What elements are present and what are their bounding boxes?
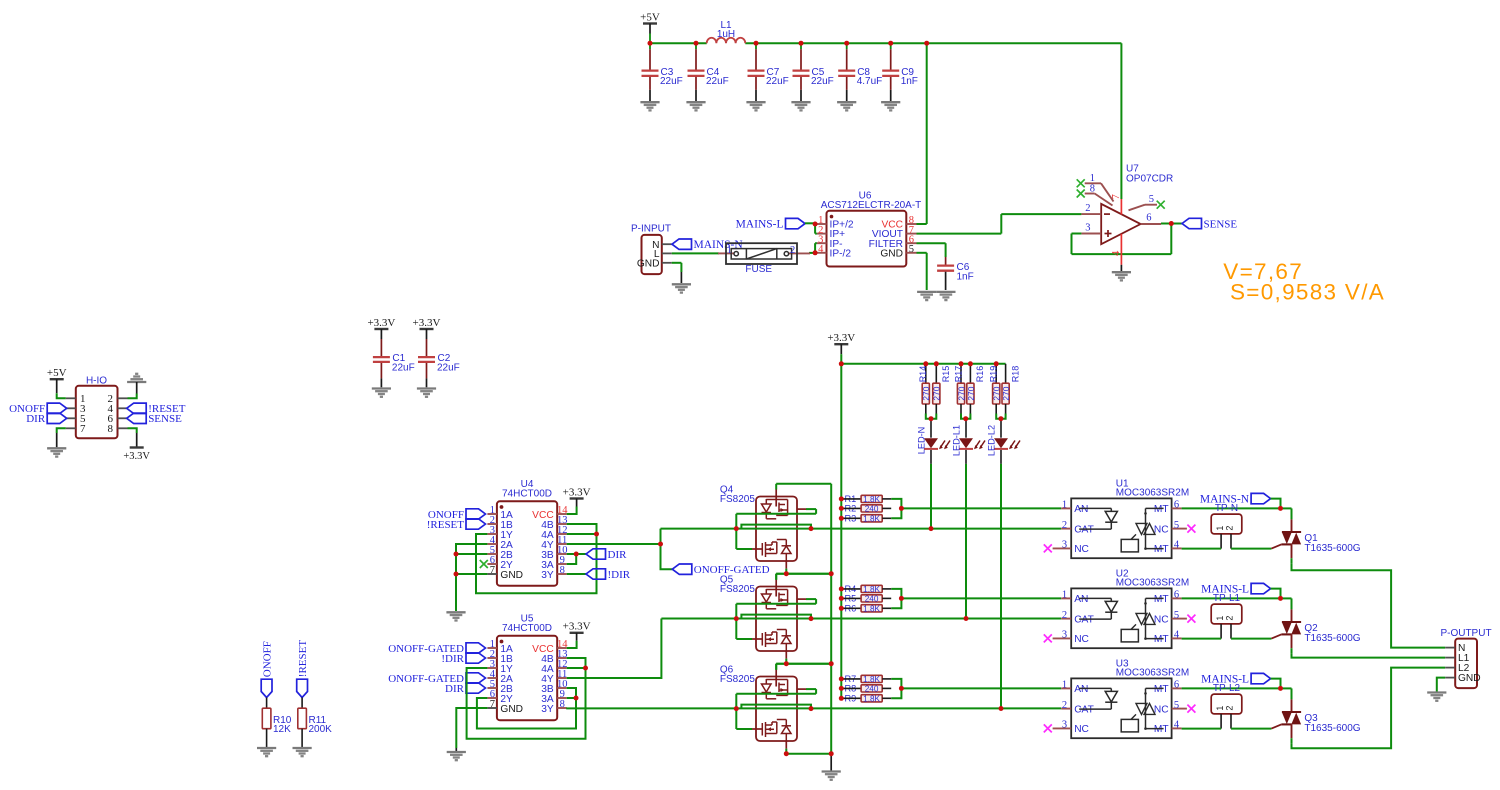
svg-text:GND: GND <box>1458 673 1481 684</box>
svg-text:1.8K: 1.8K <box>863 604 880 613</box>
svg-text:200K: 200K <box>309 724 333 735</box>
svg-text:+3.3V: +3.3V <box>413 317 441 329</box>
svg-text:!DIR: !DIR <box>608 569 631 581</box>
svg-text:IP-/2: IP-/2 <box>830 248 852 259</box>
svg-text:1.8K: 1.8K <box>863 585 880 594</box>
svg-text:7: 7 <box>80 423 86 435</box>
svg-text:CAT: CAT <box>1074 614 1094 625</box>
svg-text:LED-L1: LED-L1 <box>951 425 961 456</box>
svg-text:S=0,9583 V/A: S=0,9583 V/A <box>1230 280 1385 305</box>
svg-text:MT: MT <box>1154 544 1169 555</box>
svg-text:+3.3V: +3.3V <box>563 621 591 633</box>
svg-text:MT: MT <box>1154 684 1169 695</box>
svg-text:5: 5 <box>1174 700 1179 711</box>
svg-text:NC: NC <box>1074 634 1089 645</box>
svg-text:NC: NC <box>1154 524 1169 535</box>
svg-text:MT: MT <box>1154 634 1169 645</box>
svg-text:MT: MT <box>1154 504 1169 515</box>
svg-text:1: 1 <box>1215 526 1225 531</box>
svg-text:270: 270 <box>966 386 976 400</box>
svg-text:LED-N: LED-N <box>916 427 926 455</box>
svg-text:240: 240 <box>865 594 879 603</box>
svg-text:TP-L1: TP-L1 <box>1213 593 1241 604</box>
svg-text:DIR: DIR <box>445 683 465 695</box>
svg-text:T1635-600G: T1635-600G <box>1304 633 1360 644</box>
svg-text:NC: NC <box>1154 704 1169 715</box>
svg-text:R19: R19 <box>989 366 999 383</box>
svg-text:4: 4 <box>818 244 824 255</box>
svg-text:8: 8 <box>1090 184 1095 195</box>
svg-text:7: 7 <box>490 565 495 576</box>
svg-text:3Y: 3Y <box>541 704 554 715</box>
svg-text:MOC3063SR2M: MOC3063SR2M <box>1116 667 1189 678</box>
svg-text:GND: GND <box>500 570 523 581</box>
svg-text:MT: MT <box>1154 594 1169 605</box>
svg-text:2: 2 <box>1225 706 1235 711</box>
svg-text:FS8205: FS8205 <box>720 674 755 685</box>
svg-text:LED-L2: LED-L2 <box>986 425 996 456</box>
svg-text:+5V: +5V <box>640 11 660 23</box>
svg-text:6: 6 <box>1174 590 1179 601</box>
svg-text:MOC3063SR2M: MOC3063SR2M <box>1116 487 1189 498</box>
svg-text:2: 2 <box>1085 203 1090 214</box>
svg-text:OP07CDR: OP07CDR <box>1126 174 1173 185</box>
svg-text:240: 240 <box>865 504 879 513</box>
svg-text:+3.3V: +3.3V <box>563 486 591 498</box>
svg-text:DIR: DIR <box>608 549 628 561</box>
svg-text:R14: R14 <box>918 366 928 383</box>
svg-text:1: 1 <box>1215 706 1225 711</box>
svg-text:5: 5 <box>1174 610 1179 621</box>
svg-text:TP-N: TP-N <box>1215 503 1238 514</box>
svg-text:22uF: 22uF <box>706 76 729 87</box>
svg-text:1nF: 1nF <box>901 76 918 87</box>
svg-text:22uF: 22uF <box>437 363 460 374</box>
svg-text:R17: R17 <box>953 366 963 383</box>
svg-text:1.8K: 1.8K <box>863 675 880 684</box>
svg-text:NC: NC <box>1154 614 1169 625</box>
svg-text:T1635-600G: T1635-600G <box>1304 723 1360 734</box>
svg-text:1.8K: 1.8K <box>863 495 880 504</box>
svg-text:7: 7 <box>490 699 495 710</box>
svg-text:R16: R16 <box>975 366 985 383</box>
svg-text:R15: R15 <box>941 366 951 383</box>
svg-text:+3.3V: +3.3V <box>123 451 150 462</box>
svg-text:FS8205: FS8205 <box>720 584 755 595</box>
svg-text:2: 2 <box>1062 520 1067 531</box>
svg-text:ACS712ELCTR-20A-T: ACS712ELCTR-20A-T <box>821 200 922 211</box>
svg-text:8: 8 <box>560 565 565 576</box>
svg-text:1: 1 <box>1062 590 1067 601</box>
svg-text:270: 270 <box>921 386 931 400</box>
svg-text:4: 4 <box>1174 630 1180 641</box>
svg-text:74HCT00D: 74HCT00D <box>502 623 552 634</box>
svg-text:GND: GND <box>880 248 903 259</box>
svg-text:4: 4 <box>1111 250 1122 256</box>
svg-text:SENSE: SENSE <box>148 413 182 425</box>
svg-text:+5V: +5V <box>47 367 67 379</box>
svg-text:12K: 12K <box>273 724 291 735</box>
svg-text:2: 2 <box>1062 610 1067 621</box>
svg-text:1: 1 <box>1062 500 1067 511</box>
svg-text:!RESET: !RESET <box>427 519 465 531</box>
svg-text:1nF: 1nF <box>957 272 974 283</box>
svg-text:6: 6 <box>1174 680 1179 691</box>
svg-text:P-INPUT: P-INPUT <box>631 224 671 235</box>
svg-text:FUSE: FUSE <box>745 264 772 275</box>
svg-text:MOC3063SR2M: MOC3063SR2M <box>1116 577 1189 588</box>
svg-text:FS8205: FS8205 <box>720 494 755 505</box>
svg-text:3: 3 <box>1062 630 1067 641</box>
svg-text:AN: AN <box>1074 504 1088 515</box>
svg-text:MAINS-L: MAINS-L <box>736 218 784 230</box>
svg-text:240: 240 <box>865 684 879 693</box>
svg-text:P-OUTPUT: P-OUTPUT <box>1440 628 1491 639</box>
svg-text:3: 3 <box>1062 720 1067 731</box>
svg-text:MT: MT <box>1154 724 1169 735</box>
svg-text:GND: GND <box>500 704 523 715</box>
svg-text:T1635-600G: T1635-600G <box>1304 543 1360 554</box>
svg-text:22uF: 22uF <box>766 76 789 87</box>
svg-text:3: 3 <box>1085 223 1090 234</box>
svg-text:1: 1 <box>727 245 732 256</box>
svg-text:5: 5 <box>909 244 914 255</box>
svg-text:7: 7 <box>1111 194 1122 199</box>
svg-text:22uF: 22uF <box>660 76 683 87</box>
svg-text:+3.3V: +3.3V <box>827 332 855 344</box>
svg-text:22uF: 22uF <box>811 76 834 87</box>
svg-text:CAT: CAT <box>1074 704 1094 715</box>
svg-text:!RESET: !RESET <box>297 640 309 678</box>
svg-text:SENSE: SENSE <box>1204 218 1238 230</box>
svg-text:+3.3V: +3.3V <box>367 317 395 329</box>
svg-text:3Y: 3Y <box>541 570 554 581</box>
svg-text:5: 5 <box>1174 520 1179 531</box>
svg-text:8: 8 <box>560 699 565 710</box>
svg-text:4: 4 <box>1174 720 1180 731</box>
svg-text:5: 5 <box>1149 194 1154 205</box>
svg-text:1.8K: 1.8K <box>863 514 880 523</box>
svg-text:CAT: CAT <box>1074 524 1094 535</box>
svg-text:6: 6 <box>1174 500 1179 511</box>
svg-text:4.7uF: 4.7uF <box>857 76 883 87</box>
svg-text:TP-L2: TP-L2 <box>1213 683 1241 694</box>
svg-text:1.8K: 1.8K <box>863 694 880 703</box>
svg-text:!DIR: !DIR <box>441 653 464 665</box>
svg-text:1: 1 <box>1090 173 1095 184</box>
svg-text:NC: NC <box>1074 724 1089 735</box>
svg-text:H-IO: H-IO <box>86 376 107 387</box>
svg-text:6: 6 <box>1146 212 1151 223</box>
svg-text:1uH: 1uH <box>717 29 735 40</box>
svg-text:270: 270 <box>932 386 942 400</box>
svg-text:DIR: DIR <box>26 413 46 425</box>
svg-text:1: 1 <box>1215 616 1225 621</box>
svg-text:AN: AN <box>1074 594 1088 605</box>
svg-text:3: 3 <box>1062 540 1067 551</box>
svg-text:270: 270 <box>1001 386 1011 400</box>
svg-text:NC: NC <box>1074 544 1089 555</box>
svg-text:2: 2 <box>1225 526 1235 531</box>
svg-text:GND: GND <box>637 258 660 269</box>
svg-text:22uF: 22uF <box>392 363 415 374</box>
svg-text:ONOFF: ONOFF <box>261 641 273 677</box>
svg-text:4: 4 <box>1174 540 1180 551</box>
svg-text:2: 2 <box>790 245 795 256</box>
svg-text:1: 1 <box>1062 680 1067 691</box>
svg-text:2: 2 <box>1062 700 1067 711</box>
svg-text:8: 8 <box>108 423 114 435</box>
svg-text:R18: R18 <box>1010 366 1020 383</box>
svg-text:2: 2 <box>1225 616 1235 621</box>
svg-text:AN: AN <box>1074 684 1088 695</box>
svg-text:74HCT00D: 74HCT00D <box>502 489 552 500</box>
